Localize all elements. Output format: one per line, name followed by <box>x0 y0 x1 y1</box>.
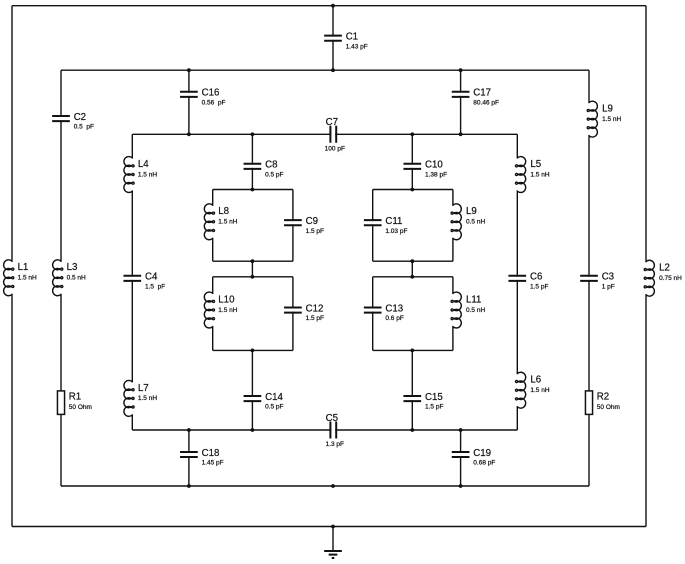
junction box3 top <box>251 275 255 279</box>
junction C8 bottom <box>251 188 255 192</box>
capacitor C14 <box>244 392 284 411</box>
capacitor C12 <box>284 303 324 322</box>
capacitor C18 <box>180 448 224 467</box>
wire C8 branch <box>251 134 253 189</box>
inductor L11 <box>451 292 485 328</box>
wire C14 branch <box>251 350 253 430</box>
junction C18 top <box>187 428 191 432</box>
svg-text:0.68 pF: 0.68 pF <box>473 460 495 467</box>
svg-text:C14: C14 <box>265 392 283 403</box>
svg-text:L9: L9 <box>466 206 477 217</box>
wire resonator box4 top <box>373 276 453 278</box>
capacitor C3 <box>580 272 615 291</box>
wire resonator box2 top <box>373 189 453 191</box>
svg-text:L6: L6 <box>530 375 541 386</box>
wire second box right <box>588 70 590 486</box>
svg-text:L1: L1 <box>18 262 29 273</box>
capacitor C5 <box>326 413 344 448</box>
junction box2 bottom <box>410 259 414 263</box>
wire outer box bottom <box>12 526 646 528</box>
junction box3 bottom <box>251 349 255 353</box>
svg-text:C10: C10 <box>425 160 443 171</box>
capacitor C7 <box>325 117 345 152</box>
junction C16 top <box>187 68 191 72</box>
junction C1 top <box>331 4 335 8</box>
capacitor C6 <box>508 272 548 291</box>
wire outer box top <box>12 5 646 7</box>
wire resonator box3 right <box>292 277 294 351</box>
svg-text:L9: L9 <box>602 104 613 115</box>
svg-text:1.5 pF: 1.5 pF <box>425 404 443 411</box>
svg-text:0.5 nH: 0.5 nH <box>67 275 86 282</box>
svg-text:C16: C16 <box>202 88 220 99</box>
svg-text:C5: C5 <box>326 413 338 424</box>
wire second box left <box>60 70 62 486</box>
svg-text:C1: C1 <box>346 32 358 43</box>
wire third box left <box>131 134 133 430</box>
junction center bottom <box>331 484 335 488</box>
resistor R2 <box>585 391 619 415</box>
capacitor C1 <box>324 32 368 51</box>
svg-text:1.5 nH: 1.5 nH <box>530 387 549 394</box>
ground <box>324 527 342 559</box>
junction C19 top <box>459 428 463 432</box>
wire resonator box3 top <box>213 276 293 278</box>
capacitor C11 <box>364 216 408 235</box>
svg-text:1.5 nH: 1.5 nH <box>218 219 237 226</box>
svg-text:50 Ohm: 50 Ohm <box>69 404 92 411</box>
wire resonator box4 right <box>452 277 454 351</box>
svg-text:0.5 nH: 0.5 nH <box>466 219 485 226</box>
svg-text:C19: C19 <box>473 448 491 459</box>
svg-text:C3: C3 <box>602 272 614 283</box>
wire C15 branch <box>411 350 413 430</box>
wire third box top <box>132 133 517 135</box>
junction C10 top <box>410 132 414 136</box>
svg-text:L8: L8 <box>218 206 229 217</box>
junction box4 top <box>410 275 414 279</box>
capacitor C10 <box>403 160 447 179</box>
svg-text:1.5 pF: 1.5 pF <box>530 283 548 290</box>
wire C10 branch <box>411 134 413 189</box>
svg-text:0.56 pF: 0.56 pF <box>202 99 226 106</box>
junction C19 bottom <box>459 484 463 488</box>
junction C17 top <box>459 68 463 72</box>
svg-text:0.5 pF: 0.5 pF <box>265 171 283 178</box>
svg-text:L3: L3 <box>67 262 78 273</box>
wire second box top <box>61 69 589 71</box>
wire C19 branch <box>460 430 462 486</box>
wire right resonator link <box>411 261 413 277</box>
junction C1 bottom <box>331 68 335 72</box>
wire resonator box2 left <box>372 190 374 262</box>
wire C16 branch <box>188 70 190 134</box>
wire resonator box2 bottom <box>373 260 453 262</box>
capacitor C9 <box>284 216 324 235</box>
capacitor C2 <box>52 112 94 131</box>
wire left resonator link <box>251 261 253 277</box>
svg-text:L7: L7 <box>138 383 149 394</box>
wire third box bottom <box>132 429 517 431</box>
svg-text:L10: L10 <box>218 294 235 305</box>
svg-text:80.46 pF: 80.46 pF <box>473 99 499 106</box>
inductor L2 <box>644 260 682 296</box>
svg-text:L4: L4 <box>138 159 149 170</box>
junction box1 bottom <box>251 259 255 263</box>
junction C8 top <box>251 132 255 136</box>
svg-text:C11: C11 <box>385 216 402 227</box>
svg-text:C7: C7 <box>326 117 338 128</box>
svg-text:C13: C13 <box>385 303 403 314</box>
junction C15 bottom <box>410 428 414 432</box>
svg-text:1 pF: 1 pF <box>602 283 615 290</box>
junction C14 bottom <box>251 428 255 432</box>
svg-text:1.38 pF: 1.38 pF <box>425 171 447 178</box>
wire outer box right <box>645 6 647 527</box>
svg-text:50 Ohm: 50 Ohm <box>597 404 620 411</box>
inductor L6 <box>515 372 549 408</box>
svg-text:1.5 nH: 1.5 nH <box>138 171 157 178</box>
svg-text:1.43 pF: 1.43 pF <box>346 43 368 50</box>
svg-text:L11: L11 <box>466 294 481 305</box>
svg-text:L5: L5 <box>530 159 541 170</box>
wire C1 branch <box>332 6 334 71</box>
svg-text:0.75 nH: 0.75 nH <box>659 275 682 282</box>
inductor L8 <box>204 204 237 240</box>
inductor L3 <box>53 260 86 296</box>
wire resonator box4 left <box>372 277 374 351</box>
wire resonator box1 right <box>292 190 294 262</box>
wire second box bottom <box>61 485 589 487</box>
wire C17 branch <box>460 70 462 134</box>
inductor L1 <box>4 260 37 296</box>
inductor L9 resonator <box>451 204 485 240</box>
capacitor C16 <box>180 88 225 107</box>
capacitor C8 <box>244 160 284 179</box>
resistor R1 <box>57 391 91 415</box>
svg-text:1.5 pF: 1.5 pF <box>306 315 324 322</box>
svg-text:1.5 nH: 1.5 nH <box>218 307 237 314</box>
svg-text:R2: R2 <box>597 391 609 402</box>
capacitor C15 <box>403 392 443 411</box>
wire resonator box3 left <box>212 277 214 351</box>
svg-text:1.45 pF: 1.45 pF <box>202 460 224 467</box>
svg-text:C8: C8 <box>265 160 277 171</box>
svg-text:C6: C6 <box>530 272 542 283</box>
wire resonator box1 bottom <box>213 260 293 262</box>
capacitor C17 <box>452 88 499 107</box>
svg-text:C18: C18 <box>202 448 220 459</box>
svg-text:1.5 nH: 1.5 nH <box>18 275 37 282</box>
wire outer box left <box>11 6 13 527</box>
junction box4 bottom <box>410 349 414 353</box>
svg-text:C2: C2 <box>74 112 86 123</box>
inductor L9 outer <box>587 101 621 137</box>
wire resonator box1 top <box>213 189 293 191</box>
wire resonator box1 left <box>212 190 214 262</box>
capacitor C4 <box>123 272 165 291</box>
svg-text:0.5 pF: 0.5 pF <box>265 404 283 411</box>
svg-text:1.5 nH: 1.5 nH <box>138 395 157 402</box>
svg-text:C9: C9 <box>306 216 318 227</box>
svg-text:0.5 nH: 0.5 nH <box>466 307 485 314</box>
wire resonator box2 right <box>452 190 454 262</box>
capacitor C13 <box>364 303 404 322</box>
svg-text:C17: C17 <box>473 88 491 99</box>
svg-text:C15: C15 <box>425 392 443 403</box>
inductor L5 <box>515 157 549 193</box>
svg-text:L2: L2 <box>659 263 670 274</box>
inductor L4 <box>124 157 157 193</box>
capacitor C19 <box>452 448 496 467</box>
wire C18 branch <box>188 430 190 486</box>
junction C16 bottom <box>187 132 191 136</box>
inductor L10 <box>204 292 237 328</box>
svg-text:0.5 pF: 0.5 pF <box>74 124 94 131</box>
svg-text:C12: C12 <box>306 303 324 314</box>
svg-text:1.5 nH: 1.5 nH <box>530 171 549 178</box>
inductor L7 <box>124 380 157 416</box>
svg-text:1.03 pF: 1.03 pF <box>385 228 407 235</box>
svg-text:C4: C4 <box>145 272 158 283</box>
svg-text:0.6 pF: 0.6 pF <box>385 315 403 322</box>
svg-text:1.5 nH: 1.5 nH <box>602 116 621 123</box>
svg-text:R1: R1 <box>69 391 81 402</box>
wire third box right <box>516 134 518 430</box>
junction C17 bottom <box>459 132 463 136</box>
wire resonator box4 bottom <box>373 349 453 351</box>
wire resonator box3 bottom <box>213 349 293 351</box>
junction ground <box>331 525 335 529</box>
svg-text:1.5 pF: 1.5 pF <box>145 283 165 290</box>
junction C10 bottom <box>410 188 414 192</box>
junction C18 bottom <box>187 484 191 488</box>
svg-text:100 pF: 100 pF <box>325 146 345 153</box>
svg-text:1.3 pF: 1.3 pF <box>326 441 344 448</box>
svg-text:1.5 pF: 1.5 pF <box>306 228 324 235</box>
